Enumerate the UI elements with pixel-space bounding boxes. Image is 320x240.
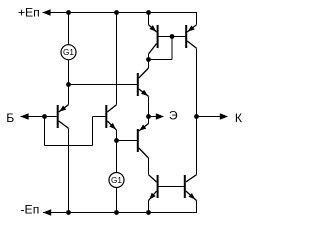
junction dot on mirror base wire — [170, 34, 175, 39]
wire VT5 base to VT6 base — [158, 36, 187, 38]
wire E node down to VT4 emitter — [148, 117, 150, 124]
junction dot on -Ep rail at VT7 emitter — [146, 210, 151, 215]
terminal arrow E — [156, 113, 164, 120]
wire node to VT4 base — [117, 140, 137, 142]
wire VT7 emitter to -Ep rail — [148, 201, 150, 213]
junction dot on +Ep rail at VT5 emitter — [146, 10, 151, 15]
wire G1 lower to -Ep rail — [116, 188, 118, 213]
wire K node to terminal — [197, 116, 221, 118]
junction dot on B wire — [42, 114, 47, 119]
transistor VT2 (NPN): bar, collector diag, emitter diag with arrow — [106, 105, 116, 130]
svg-text:G1: G1 — [111, 176, 122, 185]
wire VT3 collector up to mirror node — [148, 60, 150, 69]
wire mirror diode link vertical — [171, 37, 173, 60]
svg-text:G1: G1 — [63, 48, 74, 57]
power rail -Ep bottom wire — [43, 212, 197, 214]
wire VT2 emitter down to node — [116, 130, 118, 141]
node: junction dot G1 output / VT3 base branch — [66, 82, 71, 87]
current source G1 upper — [61, 45, 76, 60]
junction dot on +Ep rail at G1 branch — [66, 10, 71, 15]
junction dot on +Ep rail at VT2 collector — [114, 10, 119, 15]
wire B detour across (crosses VT1 collector line) — [45, 145, 93, 147]
svg-text:Б: Б — [6, 111, 14, 125]
wire mirror diode link horizontal — [149, 59, 173, 61]
wire G1 upper to VT1 emitter elbow — [68, 60, 70, 105]
wire VT4 collector to VT7 collector — [148, 158, 150, 175]
wire +Ep rail to current source G1 upper — [68, 13, 70, 45]
wire +Ep rail corner to VT6 emitter — [196, 13, 198, 25]
transistor VT6 (PNP mirror output): bar, emitter diag with arrow, collector diag — [186, 25, 196, 49]
transistor VT3 (NPN center top): bar, collector diag, emitter diag with arrow — [138, 68, 149, 96]
wire VT6 collector down to K node — [196, 48, 198, 116]
junction dot on -Ep rail at G1 lower — [114, 210, 119, 215]
transistor VT1 (PNP input follower): bar, emitter diag with arrow, collector diag — [58, 105, 69, 129]
wire VT5 emitter to +Ep rail — [148, 13, 150, 25]
node: junction dot K — [194, 114, 199, 119]
svg-text:+Еп: +Еп — [18, 5, 40, 19]
wire VT3 emitter to E node — [148, 96, 150, 116]
terminal arrow B — [20, 113, 28, 120]
wire B detour down — [44, 117, 46, 146]
wire B detour to VT2 base — [93, 116, 106, 118]
transistor VT8 (NPN bottom mirror right): bar, collector diag, emitter diag with arrow — [185, 175, 197, 201]
wire node to current source G1 lower — [116, 141, 118, 173]
svg-text:Э: Э — [169, 109, 178, 123]
wire VT8 emitter to -Ep rail corner — [196, 201, 198, 213]
node: junction dot E — [146, 114, 151, 119]
svg-text:К: К — [235, 111, 243, 125]
wire VT7 base to VT8 base — [158, 186, 185, 188]
node: junction dot VT2 emitter / VT4 base / G1 lower — [114, 138, 119, 143]
transistor VT4 (PNP center bottom): bar, emitter diag with arrow, collector diag — [138, 124, 149, 159]
terminal arrow +Ep — [42, 9, 50, 16]
wire VT1 collector to -Ep rail — [68, 128, 70, 212]
current source G1 lower — [109, 173, 124, 188]
svg-text:-Еп: -Еп — [21, 203, 40, 217]
power rail +Ep top wire — [43, 12, 198, 14]
wire K node down to VT8 collector — [196, 117, 198, 175]
transistor VT5 (PNP mirror diode side): bar, emitter diag with arrow, collector diag — [149, 25, 158, 54]
node: junction dot mirror input — [146, 57, 151, 62]
terminal arrow K — [220, 113, 228, 120]
wire B to VT1 base — [21, 116, 57, 118]
junction dot on -Ep rail at VT1 collector — [66, 210, 71, 215]
wire VT2 collector to +Ep rail — [116, 13, 118, 105]
wire E node to terminal — [149, 116, 157, 118]
terminal arrow -Ep — [43, 209, 51, 216]
wire B detour up — [92, 117, 94, 146]
wire VT5 collector to mirror node — [148, 54, 150, 60]
wire node to VT3 base (crosses VT2 collector line) — [69, 84, 137, 86]
transistor VT7 (NPN bottom mirror left): bar, collector diag, emitter diag with arrow — [149, 175, 158, 201]
